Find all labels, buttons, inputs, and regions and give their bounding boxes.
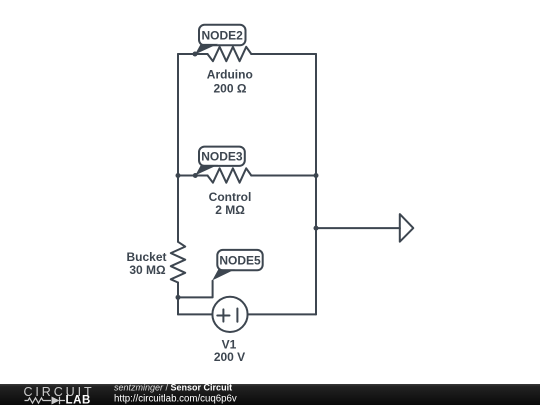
node flag NODE3 box: [199, 147, 245, 166]
V1 plus sign: [217, 309, 229, 321]
node junction dot NODE2 anchor: [193, 52, 198, 57]
resistor R Arduino zigzag: [208, 47, 252, 61]
output flag triangle: [400, 214, 414, 242]
wire NODE3 row left lead: [178, 175, 208, 177]
node junction dot left/NODE3: [176, 173, 181, 178]
wire V1 left lead: [178, 313, 212, 315]
resistor R Bucket zigzag (vertical): [171, 242, 185, 283]
node junction dot right/arrow: [314, 226, 319, 231]
node flag NODE2 box: [199, 25, 246, 46]
logo resistor squiggle and diode: [25, 397, 66, 404]
node flag NODE5 box: [217, 250, 262, 270]
node junction dot bucket/NODE5: [176, 295, 181, 300]
V1 minus bar: [236, 309, 238, 322]
svg-text:2 MΩ: 2 MΩ: [215, 203, 245, 217]
voltage source V1 circle: [212, 297, 247, 332]
wire right vertical: [315, 54, 317, 314]
svg-text:NODE5: NODE5: [219, 254, 261, 268]
svg-text:sentzminger / Sensor Circuit: sentzminger / Sensor Circuit: [114, 382, 232, 392]
wire left vertical (top segment): [177, 54, 179, 242]
node flag NODE5 tail: [212, 269, 235, 280]
svg-text:30 MΩ: 30 MΩ: [129, 263, 166, 277]
svg-text:NODE2: NODE2: [202, 28, 244, 42]
resistor R Control zigzag: [208, 168, 252, 182]
node flag NODE3 tail: [195, 165, 218, 175]
node junction dot right/NODE3: [314, 173, 319, 178]
svg-text:NODE3: NODE3: [201, 149, 243, 163]
wire top horizontal right lead: [251, 53, 316, 55]
wire left vertical (below bucket): [177, 283, 179, 315]
svg-text:200 V: 200 V: [214, 350, 245, 364]
svg-text:Arduino: Arduino: [207, 68, 253, 82]
svg-text:http://circuitlab.com/cuq6p6v: http://circuitlab.com/cuq6p6v: [114, 394, 237, 405]
svg-text:200 Ω: 200 Ω: [214, 82, 247, 96]
logo diode triangle: [52, 397, 60, 405]
wire NODE5 stub: [178, 281, 213, 298]
wire output arrow horizontal: [316, 227, 400, 229]
node junction dot NODE3 anchor: [193, 173, 198, 178]
wire NODE3 row right lead: [251, 175, 316, 177]
footer bar: [0, 384, 540, 405]
wire top horizontal left lead: [178, 53, 208, 55]
svg-text:LAB: LAB: [66, 394, 91, 405]
node flag NODE2 tail: [195, 44, 218, 55]
wire V1 right lead: [248, 313, 316, 315]
